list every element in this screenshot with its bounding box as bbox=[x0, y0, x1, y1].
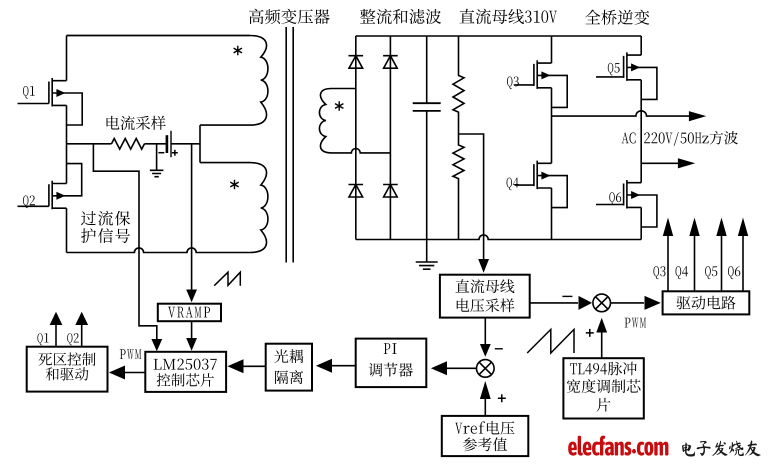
wire overcurrent tap bbox=[93, 144, 156, 340]
arrow deadband output Q2 bbox=[67, 312, 88, 347]
diode D2 bbox=[383, 56, 398, 68]
transformer T1 primary winding upper bbox=[67, 36, 268, 126]
wire node to sense resistor bbox=[67, 143, 112, 145]
node label 直流母线310V (DC bus 310V) bbox=[460, 9, 558, 24]
wire Q1 gate lead bbox=[18, 103, 49, 105]
arrow sampling to S2 minus bbox=[530, 296, 592, 310]
block Vref 电压参考值 bbox=[442, 416, 529, 456]
block 死区控制和驱动 (deadband control & drive) bbox=[27, 347, 108, 392]
diode D4 bbox=[383, 185, 398, 198]
wire secondary bottom lead with hop bbox=[332, 148, 391, 152]
block 驱动电路 (gate drive) bbox=[663, 291, 750, 314]
wire Q5 drain to top rail bbox=[640, 36, 642, 55]
wire H-bridge right midpoint output bbox=[641, 162, 678, 164]
resistor R1 current sense bbox=[112, 139, 145, 150]
diode D3 bbox=[349, 185, 364, 198]
node label 全桥逆变 (full-bridge inverter) bbox=[585, 10, 649, 25]
drive signal arrow Q6 bbox=[728, 218, 748, 292]
arrow Vref to S1 plus bbox=[480, 381, 506, 416]
transformer T1 secondary winding bbox=[319, 89, 355, 153]
wire Q4 drain to midpoint bbox=[551, 116, 553, 163]
resistor R3 divider lower bbox=[453, 134, 464, 240]
diode D1 bbox=[349, 56, 364, 68]
wire resistor to battery bbox=[145, 143, 167, 145]
capacitor C1 filter bbox=[413, 36, 441, 240]
block 光耦隔离 (opto isolation) bbox=[266, 344, 312, 391]
wire Q2 source down bbox=[66, 208, 68, 252]
arrow VRAMP to LM25037 bbox=[186, 321, 197, 351]
drive signal arrow Q4 bbox=[676, 218, 700, 292]
wire Q3 source to midpoint bbox=[551, 88, 553, 116]
battery B1 bbox=[158, 131, 177, 157]
node label 高频变压器 (HF transformer) bbox=[249, 9, 330, 24]
arrow deadband output Q1 bbox=[37, 312, 62, 347]
block LM25037控制芯片 bbox=[145, 352, 226, 392]
transistor Q4 bbox=[507, 161, 568, 208]
sawtooth symbol near TL494 bbox=[527, 329, 574, 353]
arrow TL494 to S2 plus bbox=[586, 318, 607, 358]
wire Q4 source to bottom rail bbox=[551, 188, 553, 240]
transistor Q6 bbox=[609, 180, 657, 227]
label AC 220V/50Hz方波 bbox=[622, 131, 738, 146]
wire rectifier branch 2 bbox=[389, 36, 391, 240]
wire bottom rail left bbox=[67, 248, 250, 253]
wire top rail to transformer bbox=[67, 35, 250, 37]
drive signal arrow Q5 bbox=[705, 218, 727, 292]
wire DC bus top rail bbox=[356, 35, 641, 37]
wire center tap vertical bbox=[199, 125, 201, 163]
arrow S2 to drive PWM bbox=[611, 296, 661, 328]
wire Q3 gate lead bbox=[515, 84, 535, 86]
wire DC bus bottom rail bbox=[356, 235, 641, 240]
wire Q2 drain up to node bbox=[66, 144, 68, 184]
label 电流采样 (current sampling) bbox=[107, 116, 166, 130]
block TL494脉冲宽度调制芯片 bbox=[563, 358, 643, 418]
logo elecfans.com bbox=[568, 436, 668, 456]
wire Q6 gate lead bbox=[596, 204, 624, 206]
arrow sampling to S1 minus bbox=[480, 318, 503, 357]
block PI调节器 (PI regulator) bbox=[356, 339, 427, 388]
transistor Q5 bbox=[608, 52, 657, 99]
drive signal arrow Q3 bbox=[653, 218, 673, 292]
block 直流母线电压采样 (bus voltage sense) bbox=[440, 275, 530, 318]
polarity dot * secondary bbox=[335, 101, 343, 111]
arrow PI to optocoupler bbox=[316, 359, 356, 373]
transformer T1 primary winding lower bbox=[200, 163, 268, 253]
sawtooth symbol near VRAMP bbox=[214, 272, 240, 286]
wire battery to center tap bbox=[171, 143, 200, 145]
summing junction S1 bbox=[477, 360, 495, 378]
wire Q2 gate lead bbox=[18, 205, 49, 207]
wire rectifier branch 1 bbox=[355, 36, 357, 240]
wire H-bridge left midpoint output bbox=[552, 111, 690, 116]
wire Q6 source to bottom rail bbox=[640, 207, 642, 239]
block VRAMP bbox=[158, 304, 221, 322]
wire divider tap to sampling box bbox=[459, 134, 490, 273]
logo text 电子发烧友 bbox=[682, 440, 761, 456]
arrow LM25037 to deadband PWM bbox=[109, 349, 145, 379]
arrow overcurrent into LM25037 bbox=[151, 339, 162, 351]
ground sense bbox=[150, 144, 164, 177]
ground main bbox=[416, 240, 438, 270]
transistor Q1 bbox=[23, 78, 82, 125]
wire right leg Q5 source to Q6 drain bbox=[640, 80, 642, 183]
transistor Q3 bbox=[507, 60, 567, 107]
wire Q1 drain to top rail bbox=[66, 36, 68, 81]
wire center tap to VRAMP arrow bbox=[186, 144, 197, 302]
transistor Q2 bbox=[23, 164, 82, 210]
polarity dot * upper primary bbox=[234, 46, 242, 56]
wire Q3 drain to top rail bbox=[551, 36, 553, 63]
label 过流保护信号 line2 bbox=[81, 228, 130, 243]
arrow optocoupler to LM25037 bbox=[227, 359, 265, 373]
output arrow AC terminal 2 bbox=[678, 158, 695, 168]
wire Q5 gate lead bbox=[596, 76, 624, 78]
arrow S1 to PI bbox=[431, 361, 477, 375]
wire Q1 source down to node bbox=[66, 105, 68, 143]
summing junction S2 bbox=[593, 294, 611, 312]
polarity dot * lower primary bbox=[230, 180, 238, 190]
wire Q4 gate lead bbox=[515, 184, 535, 186]
output arrow AC terminal 1 bbox=[689, 111, 706, 121]
label 过流保护信号 line1 bbox=[81, 211, 130, 226]
transformer T1 core bbox=[286, 27, 293, 263]
node label 整流和滤波 (rectify & filter) bbox=[360, 9, 441, 24]
resistor R2 divider upper bbox=[453, 36, 464, 134]
